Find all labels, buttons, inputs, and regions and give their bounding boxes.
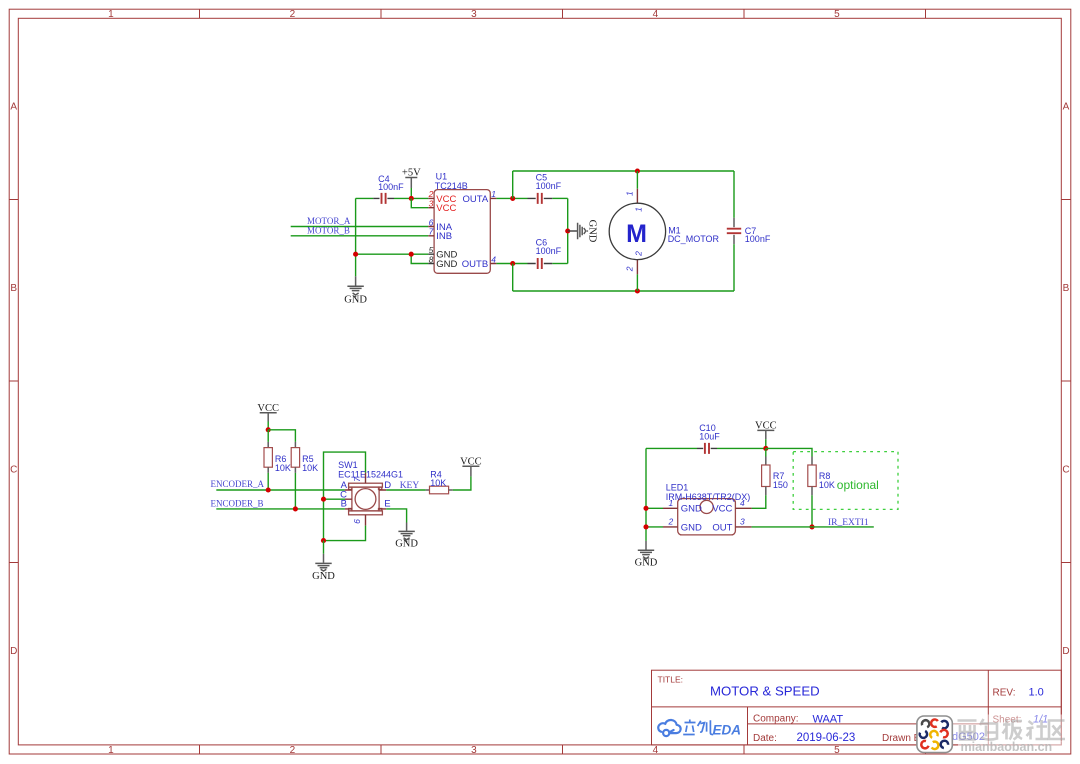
svg-text:VCC: VCC xyxy=(436,203,456,214)
svg-text:optional: optional xyxy=(837,478,879,492)
wire MOTOR_B xyxy=(291,235,429,237)
ground GND rotated xyxy=(568,220,598,243)
svg-text:4: 4 xyxy=(491,254,496,264)
svg-text:Date:: Date: xyxy=(753,733,777,744)
watermark chinese glyph 包 xyxy=(980,719,997,740)
svg-text:8: 8 xyxy=(429,254,434,264)
frame column numbers bottom xyxy=(108,745,840,756)
motor pin numbers xyxy=(625,191,644,272)
svg-text:INB: INB xyxy=(436,231,452,242)
svg-text:6: 6 xyxy=(352,519,362,524)
svg-text:100nF: 100nF xyxy=(536,246,562,256)
svg-text:U1: U1 xyxy=(436,171,448,181)
svg-text:3: 3 xyxy=(471,745,477,756)
motor M1 labels xyxy=(668,225,720,244)
node +5V junction xyxy=(409,196,414,201)
wire SW1 pin C xyxy=(324,498,346,500)
wire +5V junction to pin3 xyxy=(411,198,428,207)
svg-text:MOTOR & SPEED: MOTOR & SPEED xyxy=(710,683,820,698)
U1 pin numbers xyxy=(428,189,434,264)
resistor R7 labels xyxy=(773,471,788,490)
svg-text:GND: GND xyxy=(395,538,418,549)
frame row letters left xyxy=(10,102,17,658)
U1 pin stubs right xyxy=(490,198,496,263)
node OUTB junction xyxy=(510,261,515,266)
svg-text:2: 2 xyxy=(290,9,296,20)
optional dashed box xyxy=(793,452,898,510)
svg-text:VCC: VCC xyxy=(712,504,732,515)
svg-text:DC_MOTOR: DC_MOTOR xyxy=(668,234,720,244)
node VCC ir junction xyxy=(763,446,768,451)
svg-text:3: 3 xyxy=(429,199,434,209)
svg-text:100nF: 100nF xyxy=(745,234,771,244)
svg-text:GND: GND xyxy=(344,295,367,306)
capacitor C5 labels xyxy=(536,173,562,191)
title block divider title row xyxy=(652,706,1062,708)
node pin C junction xyxy=(321,497,326,502)
switch SW1 body xyxy=(349,483,383,515)
svg-text:OUT: OUT xyxy=(712,522,732,533)
wire pin1 xyxy=(646,507,663,509)
svg-text:Company:: Company: xyxy=(753,713,799,724)
svg-text:10uF: 10uF xyxy=(699,431,720,441)
svg-text:IR_EXTI1: IR_EXTI1 xyxy=(828,518,869,528)
svg-text:2019-06-23: 2019-06-23 xyxy=(797,732,856,744)
wire bottom rail xyxy=(513,290,734,292)
watermark logo hooks xyxy=(918,718,949,750)
svg-text:GND: GND xyxy=(436,259,457,270)
svg-text:D: D xyxy=(10,646,17,657)
node OUTA junction xyxy=(510,196,515,201)
svg-text:IRM-H638T/TR2(DX): IRM-H638T/TR2(DX) xyxy=(666,492,751,502)
wire ENCODER_B xyxy=(216,508,345,510)
wire IR left vertical xyxy=(645,448,647,541)
SW1 pin letters xyxy=(340,480,391,509)
resistor R6 labels xyxy=(275,454,291,473)
svg-text:MOTOR_B: MOTOR_B xyxy=(307,226,350,236)
wire pin8 branch xyxy=(411,254,428,263)
svg-text:2: 2 xyxy=(625,266,635,272)
ground GND ir xyxy=(635,541,658,569)
node GND tap junction xyxy=(565,228,570,233)
svg-text:1: 1 xyxy=(108,745,114,756)
wire ENCODER_A xyxy=(216,489,345,491)
svg-text:5: 5 xyxy=(834,745,840,756)
svg-text:GND: GND xyxy=(681,504,702,515)
watermark chinese glyph 社 xyxy=(1027,720,1049,740)
power symbol VCC key xyxy=(460,456,482,476)
svg-text:1: 1 xyxy=(491,189,496,199)
wire IR top rail left xyxy=(646,447,697,449)
svg-text:D: D xyxy=(1062,646,1069,657)
frame column numbers top xyxy=(108,9,840,20)
svg-text:1: 1 xyxy=(634,207,644,212)
title block outline xyxy=(652,670,1062,745)
svg-text:1: 1 xyxy=(669,498,674,508)
svg-text:B: B xyxy=(341,499,347,510)
svg-text:ENCODER_A: ENCODER_A xyxy=(211,479,265,489)
svg-text:B: B xyxy=(1063,283,1070,294)
resistor R4 xyxy=(426,486,453,494)
svg-text:1: 1 xyxy=(625,191,635,196)
svg-text:150: 150 xyxy=(773,480,788,490)
wire C10 to VCC junction xyxy=(717,447,766,449)
wire OUTB vertical down xyxy=(512,264,514,292)
SW1 pin numbers xyxy=(352,477,362,524)
power symbol +5V xyxy=(402,168,421,199)
wire C6 to right vertical xyxy=(552,263,567,265)
node loop bottom junction xyxy=(321,538,326,543)
frame column ticks bottom xyxy=(200,745,926,754)
node motor top junction xyxy=(635,168,640,173)
svg-text:OUTA: OUTA xyxy=(463,194,489,205)
EasyEDA logo text 立创 glyphs xyxy=(683,720,713,735)
resistor R6 xyxy=(264,430,272,490)
resistor R8 labels xyxy=(819,471,835,490)
resistor R5 labels xyxy=(302,454,318,473)
ground GND pin E xyxy=(395,523,418,550)
LED1 pin numbers xyxy=(668,498,746,527)
capacitor C4 labels xyxy=(378,174,404,192)
svg-text:GND: GND xyxy=(635,557,658,568)
svg-text:A: A xyxy=(1063,102,1070,113)
frame row ticks right xyxy=(1061,200,1071,563)
svg-text:10K: 10K xyxy=(302,463,318,473)
svg-text:4: 4 xyxy=(653,9,659,20)
node VCC junction xyxy=(266,427,271,432)
wire OUTB to C6 xyxy=(496,263,527,265)
wire MOTOR_A xyxy=(291,226,429,228)
svg-text:GND: GND xyxy=(681,522,702,533)
svg-text:C: C xyxy=(10,465,17,476)
wire vertical to GND xyxy=(355,198,357,276)
capacitor C6 xyxy=(528,258,553,269)
wire pin5 GND row xyxy=(356,253,429,255)
op-amp U1 TC214B body xyxy=(434,190,490,274)
svg-text:B: B xyxy=(10,283,17,294)
svg-text:M: M xyxy=(626,220,647,248)
capacitor C4 xyxy=(373,193,394,204)
resistor R8 xyxy=(808,457,816,527)
title block divider logo cell xyxy=(747,707,749,745)
svg-text:1.0: 1.0 xyxy=(1029,686,1044,698)
wire SW1 pin7 loop to pin6 xyxy=(324,452,366,540)
wire OUT to IR_EXTI1 xyxy=(752,526,874,528)
wire OUTA vertical up xyxy=(512,171,514,198)
watermark chinese glyph 板 xyxy=(1003,720,1023,740)
svg-text:TC214B: TC214B xyxy=(435,181,468,191)
svg-text:OUTB: OUTB xyxy=(462,259,488,270)
svg-text:4: 4 xyxy=(653,745,659,756)
svg-text:2: 2 xyxy=(668,516,674,526)
svg-text:100nF: 100nF xyxy=(536,181,562,191)
wire R4 to VCC xyxy=(453,476,471,490)
title block divider date row xyxy=(748,723,989,725)
svg-text:GND: GND xyxy=(587,220,598,243)
wire C4 row left segment xyxy=(356,197,374,199)
power symbol VCC encoder xyxy=(257,403,279,430)
svg-text:C: C xyxy=(1062,465,1069,476)
svg-text:mianbaoban.cn: mianbaoban.cn xyxy=(961,740,1053,754)
wire SW1 pin E to ground xyxy=(386,509,406,523)
wire SW1 pin D to R4 xyxy=(386,489,425,491)
node R5 junction xyxy=(293,506,298,511)
wire motor pin1 xyxy=(636,171,638,189)
LED1 pin stubs xyxy=(663,508,752,527)
wire top rail xyxy=(513,170,734,172)
svg-text:2: 2 xyxy=(634,251,644,257)
svg-text:3: 3 xyxy=(740,516,745,526)
svg-text:100nF: 100nF xyxy=(378,182,404,192)
wire motor pin2 xyxy=(636,274,638,291)
capacitor C6 labels xyxy=(536,238,562,256)
capacitor C10 xyxy=(697,443,717,454)
node pin1 junction xyxy=(643,506,648,511)
svg-text:A: A xyxy=(10,102,17,113)
resistor R4 labels xyxy=(430,470,446,488)
wire pin2 xyxy=(646,526,663,528)
svg-text:10K: 10K xyxy=(819,480,835,490)
svg-text:7: 7 xyxy=(352,477,362,482)
watermark chinese glyph 面 xyxy=(958,721,977,740)
frame column ticks top xyxy=(200,9,926,18)
watermark logo badge xyxy=(917,716,952,753)
ground GND under U1 xyxy=(344,276,367,305)
svg-text:E: E xyxy=(384,499,390,510)
frame row letters right xyxy=(1062,102,1069,658)
SW1 pin stubs xyxy=(345,473,386,526)
SW1 reference labels xyxy=(338,460,403,479)
svg-text:GND: GND xyxy=(312,571,335,582)
svg-text:10K: 10K xyxy=(275,463,291,473)
motor M1 body xyxy=(609,189,665,275)
ground GND under SW1 xyxy=(312,541,335,582)
svg-text:10K: 10K xyxy=(430,478,446,488)
node R6 junction xyxy=(266,487,271,492)
U1 pin stubs left xyxy=(428,198,434,263)
watermark white glow backdrop xyxy=(953,715,1067,743)
svg-text:WAAT: WAAT xyxy=(813,713,844,725)
U1 reference labels xyxy=(435,171,468,191)
svg-text:4: 4 xyxy=(740,498,745,508)
wire C4 to +5V junction xyxy=(394,197,428,199)
svg-text:5: 5 xyxy=(834,9,840,20)
wire VCC junction to R8 xyxy=(766,448,812,456)
EasyEDA logo cloud icon xyxy=(658,720,680,736)
node GND branch junction xyxy=(353,252,358,257)
node motor bottom junction xyxy=(635,288,640,293)
power symbol VCC ir xyxy=(755,420,777,448)
resistor R5 xyxy=(291,442,299,509)
node pin8 junction xyxy=(409,252,414,257)
svg-text:EC11E15244G1: EC11E15244G1 xyxy=(338,469,403,479)
svg-text:REV:: REV: xyxy=(993,687,1016,698)
wire C5 to right vertical xyxy=(552,197,567,199)
resistor R7 xyxy=(752,448,770,508)
title block divider REV column xyxy=(987,670,989,745)
node pin2 junction xyxy=(643,524,648,529)
svg-text:7: 7 xyxy=(429,227,434,237)
LED1 pin names xyxy=(681,504,733,534)
svg-text:3: 3 xyxy=(471,9,477,20)
frame row ticks left xyxy=(9,200,18,563)
U1 pin names xyxy=(436,194,489,270)
capacitor C7 labels xyxy=(745,226,771,244)
capacitor C10 labels xyxy=(699,423,720,441)
capacitor C5 xyxy=(528,193,553,204)
wire OUTA to C5 xyxy=(496,197,527,199)
wire C5-C6 right vertical xyxy=(567,198,569,263)
IR receiver LED1 body xyxy=(678,499,736,535)
svg-text:EDA: EDA xyxy=(713,723,742,738)
node R8 junction xyxy=(809,524,814,529)
svg-text:2: 2 xyxy=(290,745,296,756)
LED1 reference labels xyxy=(666,483,751,502)
wire VCC to R5 xyxy=(268,430,295,442)
capacitor C7 xyxy=(727,171,741,291)
watermark chinese glyph 区 xyxy=(1049,721,1065,740)
svg-text:TITLE:: TITLE: xyxy=(658,675,684,685)
svg-text:ENCODER_B: ENCODER_B xyxy=(211,498,264,508)
svg-text:1: 1 xyxy=(108,9,114,20)
